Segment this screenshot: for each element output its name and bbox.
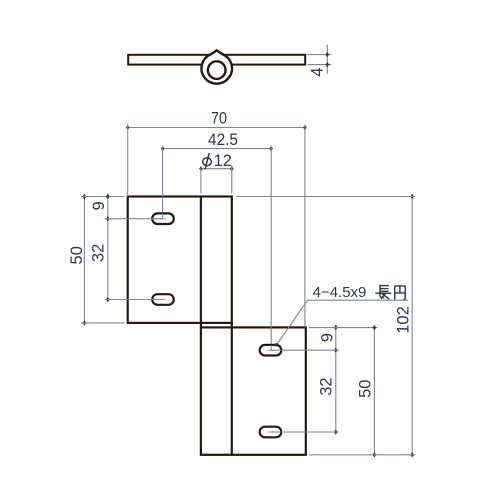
dim 50 left extension lines bbox=[81, 197, 124, 323]
dim 42.5 extension to upper hole H1 bbox=[162, 146, 164, 216]
dim phi12 label: phi symbol bbox=[203, 153, 212, 170]
leader underline bbox=[308, 299, 409, 301]
dim 102 top extension line bbox=[236, 196, 415, 198]
dim 50 left line bbox=[83, 197, 85, 323]
svg-text:42.5: 42.5 bbox=[208, 131, 238, 149]
dim 9 right line (shared with 32) bbox=[335, 325, 337, 432]
svg-text:9: 9 bbox=[90, 201, 108, 210]
svg-text:50: 50 bbox=[357, 380, 375, 398]
hole H3 center mark bbox=[268, 349, 274, 351]
upper oblong hole H2 bbox=[152, 294, 174, 305]
svg-text:12: 12 bbox=[214, 152, 232, 170]
dim 50 right line bbox=[373, 328, 375, 455]
hole H4 center mark bbox=[268, 431, 274, 433]
dim 102 line bbox=[411, 197, 413, 455]
dim 4 line bbox=[326, 45, 328, 74]
svg-text:4: 4 bbox=[309, 68, 327, 77]
hole H2 center mark bbox=[160, 299, 166, 301]
lower plate top extension line bbox=[309, 327, 378, 329]
hole H1 center mark bbox=[160, 218, 166, 220]
dim 102 bottom extension line bbox=[309, 454, 416, 456]
dim 42.5 tail inside H3 bbox=[270, 345, 272, 350]
dim 42.5 extension to lower hole H3 bbox=[270, 146, 272, 349]
leader line to hole H3 bbox=[277, 300, 308, 344]
svg-text:32: 32 bbox=[318, 377, 336, 395]
dim 42.5 line bbox=[163, 148, 272, 150]
top view bar bbox=[128, 55, 305, 65]
hole H4 center line to dim bbox=[271, 431, 339, 433]
dim 9 left line (shared with 32) bbox=[107, 194, 109, 300]
kanji en (circle/yen) bbox=[395, 286, 406, 300]
svg-text:4−4.5x9: 4−4.5x9 bbox=[313, 284, 367, 301]
kanji chou (long) bbox=[375, 285, 391, 299]
hole H2 center line to dim bbox=[105, 299, 163, 301]
top view knuckle inner circle bbox=[208, 61, 226, 79]
knuckle strip left edge (upper) bbox=[200, 197, 202, 323]
knuckle strip right edge (lower) bbox=[231, 327, 233, 454]
dim 70 extension lines bbox=[128, 125, 305, 328]
svg-text:9: 9 bbox=[318, 333, 336, 342]
svg-text:50: 50 bbox=[68, 246, 86, 264]
knuckle junction verticals bbox=[201, 323, 232, 328]
top view knuckle outer bbox=[201, 50, 232, 83]
hole H1 center line to dim bbox=[105, 218, 163, 220]
dim phi12 extension lines bbox=[201, 166, 232, 194]
dim 70 line bbox=[128, 127, 305, 129]
hole H3 center line to dim bbox=[271, 349, 339, 351]
lower oblong hole H4 bbox=[260, 427, 282, 438]
dim 4 extension lines bbox=[308, 55, 332, 65]
lower oblong hole H3 bbox=[260, 345, 282, 356]
leader arrow dot bbox=[275, 343, 279, 347]
svg-text:32: 32 bbox=[90, 244, 108, 262]
lower plate outline bbox=[201, 327, 306, 454]
dim 42.5 tail inside H1 bbox=[162, 214, 164, 219]
dim phi12 line bbox=[201, 168, 232, 170]
upper oblong hole H1 bbox=[152, 213, 174, 224]
svg-text:70: 70 bbox=[211, 110, 227, 128]
svg-text:102: 102 bbox=[395, 306, 413, 334]
upper plate outline bbox=[128, 197, 232, 323]
